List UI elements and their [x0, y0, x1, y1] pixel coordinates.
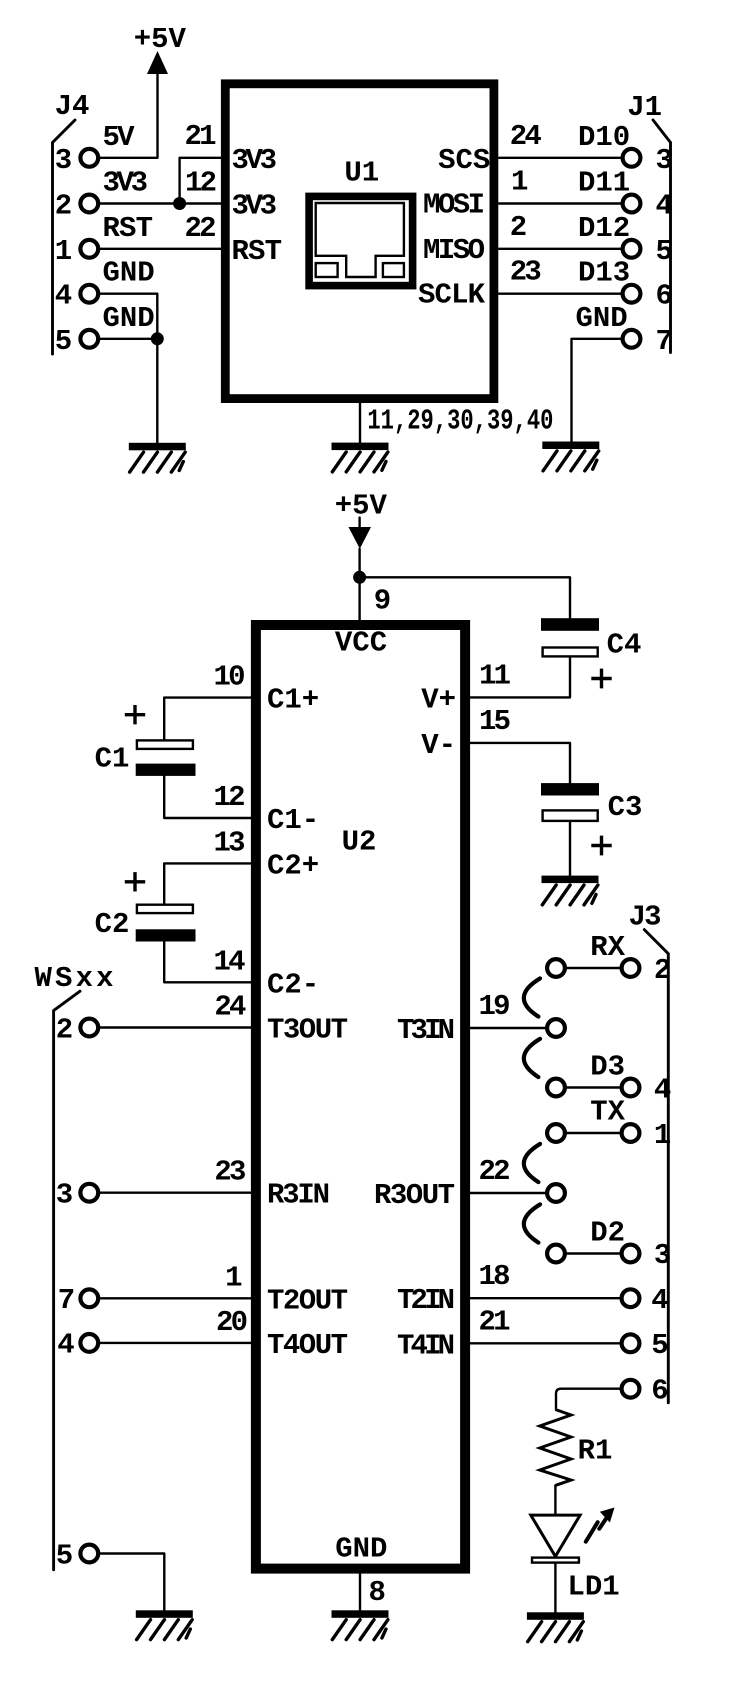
svg-text:C1-: C1- — [267, 804, 319, 837]
svg-text:C2-: C2- — [267, 968, 319, 1001]
svg-text:5: 5 — [656, 235, 673, 268]
svg-text:U2: U2 — [342, 826, 377, 859]
svg-text:V+: V+ — [421, 683, 456, 716]
svg-text:3: 3 — [56, 1179, 73, 1212]
svg-text:5V: 5V — [103, 121, 136, 154]
svg-text:2: 2 — [56, 1013, 73, 1046]
svg-text:T3IN: T3IN — [397, 1014, 455, 1047]
svg-text:7: 7 — [58, 1284, 75, 1317]
svg-text:RX: RX — [590, 931, 625, 964]
svg-text:14: 14 — [214, 945, 246, 978]
svg-text:D2: D2 — [590, 1216, 625, 1249]
svg-text:C4: C4 — [607, 628, 642, 661]
svg-text:V-: V- — [421, 729, 456, 762]
svg-text:3V3: 3V3 — [232, 144, 278, 177]
svg-text:SCS: SCS — [438, 144, 490, 177]
svg-text:8: 8 — [369, 1576, 386, 1609]
svg-text:J1: J1 — [627, 91, 662, 124]
svg-text:RST: RST — [103, 212, 154, 245]
svg-text:4: 4 — [654, 1073, 671, 1106]
svg-text:T2OUT: T2OUT — [267, 1284, 348, 1317]
svg-text:24: 24 — [510, 120, 542, 153]
svg-text:J4: J4 — [55, 90, 90, 123]
svg-text:3V3: 3V3 — [103, 167, 149, 200]
svg-text:C1: C1 — [95, 742, 130, 775]
svg-text:3: 3 — [55, 144, 72, 177]
svg-text:3: 3 — [654, 1239, 671, 1272]
svg-text:R1: R1 — [578, 1434, 613, 1467]
svg-text:12: 12 — [214, 781, 246, 814]
svg-text:D10: D10 — [578, 121, 630, 154]
svg-text:4: 4 — [57, 1329, 74, 1362]
svg-text:U1: U1 — [344, 156, 379, 189]
svg-text:6: 6 — [651, 1375, 668, 1408]
svg-text:GND: GND — [103, 302, 155, 335]
svg-text:1: 1 — [55, 235, 72, 268]
svg-text:6: 6 — [656, 280, 673, 313]
svg-text:11: 11 — [479, 659, 511, 692]
svg-text:C2+: C2+ — [267, 849, 319, 882]
svg-text:22: 22 — [185, 212, 217, 245]
svg-text:21: 21 — [479, 1305, 511, 1338]
svg-text:GND: GND — [103, 257, 155, 290]
svg-text:+5V: +5V — [335, 490, 388, 523]
svg-text:3V3: 3V3 — [232, 190, 278, 223]
svg-text:GND: GND — [335, 1533, 387, 1566]
svg-text:18: 18 — [479, 1260, 511, 1293]
svg-text:2: 2 — [654, 954, 671, 987]
svg-text:R3IN: R3IN — [267, 1179, 330, 1212]
svg-text:D12: D12 — [578, 212, 630, 245]
svg-text:D13: D13 — [578, 257, 630, 290]
svg-text:3: 3 — [656, 144, 673, 177]
svg-text:C2: C2 — [95, 908, 130, 941]
svg-text:1: 1 — [511, 166, 528, 199]
svg-text:RST: RST — [232, 235, 283, 268]
svg-text:SCLK: SCLK — [418, 279, 486, 312]
svg-text:9: 9 — [374, 585, 391, 618]
svg-text:1: 1 — [654, 1119, 671, 1152]
svg-text:C1+: C1+ — [267, 684, 319, 717]
svg-text:VCC: VCC — [335, 627, 387, 660]
svg-text:15: 15 — [479, 705, 511, 738]
svg-text:4: 4 — [55, 280, 72, 313]
svg-text:+5V: +5V — [134, 23, 187, 56]
svg-text:T3OUT: T3OUT — [267, 1014, 348, 1047]
svg-text:J3: J3 — [629, 901, 662, 934]
svg-text:4: 4 — [656, 190, 673, 223]
svg-text:23: 23 — [214, 1156, 246, 1189]
svg-text:1: 1 — [225, 1261, 242, 1294]
svg-text:5: 5 — [55, 325, 72, 358]
svg-text:7: 7 — [656, 325, 673, 358]
svg-text:TX: TX — [590, 1096, 625, 1129]
svg-text:T4OUT: T4OUT — [267, 1329, 348, 1362]
svg-text:T4IN: T4IN — [397, 1329, 455, 1362]
svg-text:12: 12 — [185, 167, 217, 200]
svg-text:5: 5 — [56, 1539, 73, 1572]
svg-text:MOSI: MOSI — [423, 189, 485, 222]
svg-text:23: 23 — [510, 256, 542, 289]
svg-text:22: 22 — [479, 1155, 511, 1188]
svg-text:2: 2 — [510, 211, 527, 244]
svg-text:C3: C3 — [608, 791, 643, 824]
svg-text:R3OUT: R3OUT — [374, 1179, 455, 1212]
svg-text:LD1: LD1 — [567, 1570, 619, 1603]
svg-text:4: 4 — [651, 1284, 668, 1317]
svg-text:20: 20 — [216, 1306, 248, 1339]
svg-text:MISO: MISO — [423, 234, 485, 267]
svg-text:13: 13 — [214, 826, 246, 859]
svg-text:D11: D11 — [578, 167, 630, 200]
svg-text:10: 10 — [214, 661, 246, 694]
svg-text:2: 2 — [55, 190, 72, 223]
svg-text:24: 24 — [214, 991, 246, 1024]
svg-text:5: 5 — [651, 1329, 668, 1362]
svg-text:T2IN: T2IN — [397, 1284, 455, 1317]
svg-text:19: 19 — [479, 990, 511, 1023]
svg-text:D3: D3 — [590, 1050, 625, 1083]
svg-text:21: 21 — [185, 120, 217, 153]
svg-text:11,29,30,39,40: 11,29,30,39,40 — [367, 405, 553, 438]
svg-text:GND: GND — [576, 302, 628, 335]
